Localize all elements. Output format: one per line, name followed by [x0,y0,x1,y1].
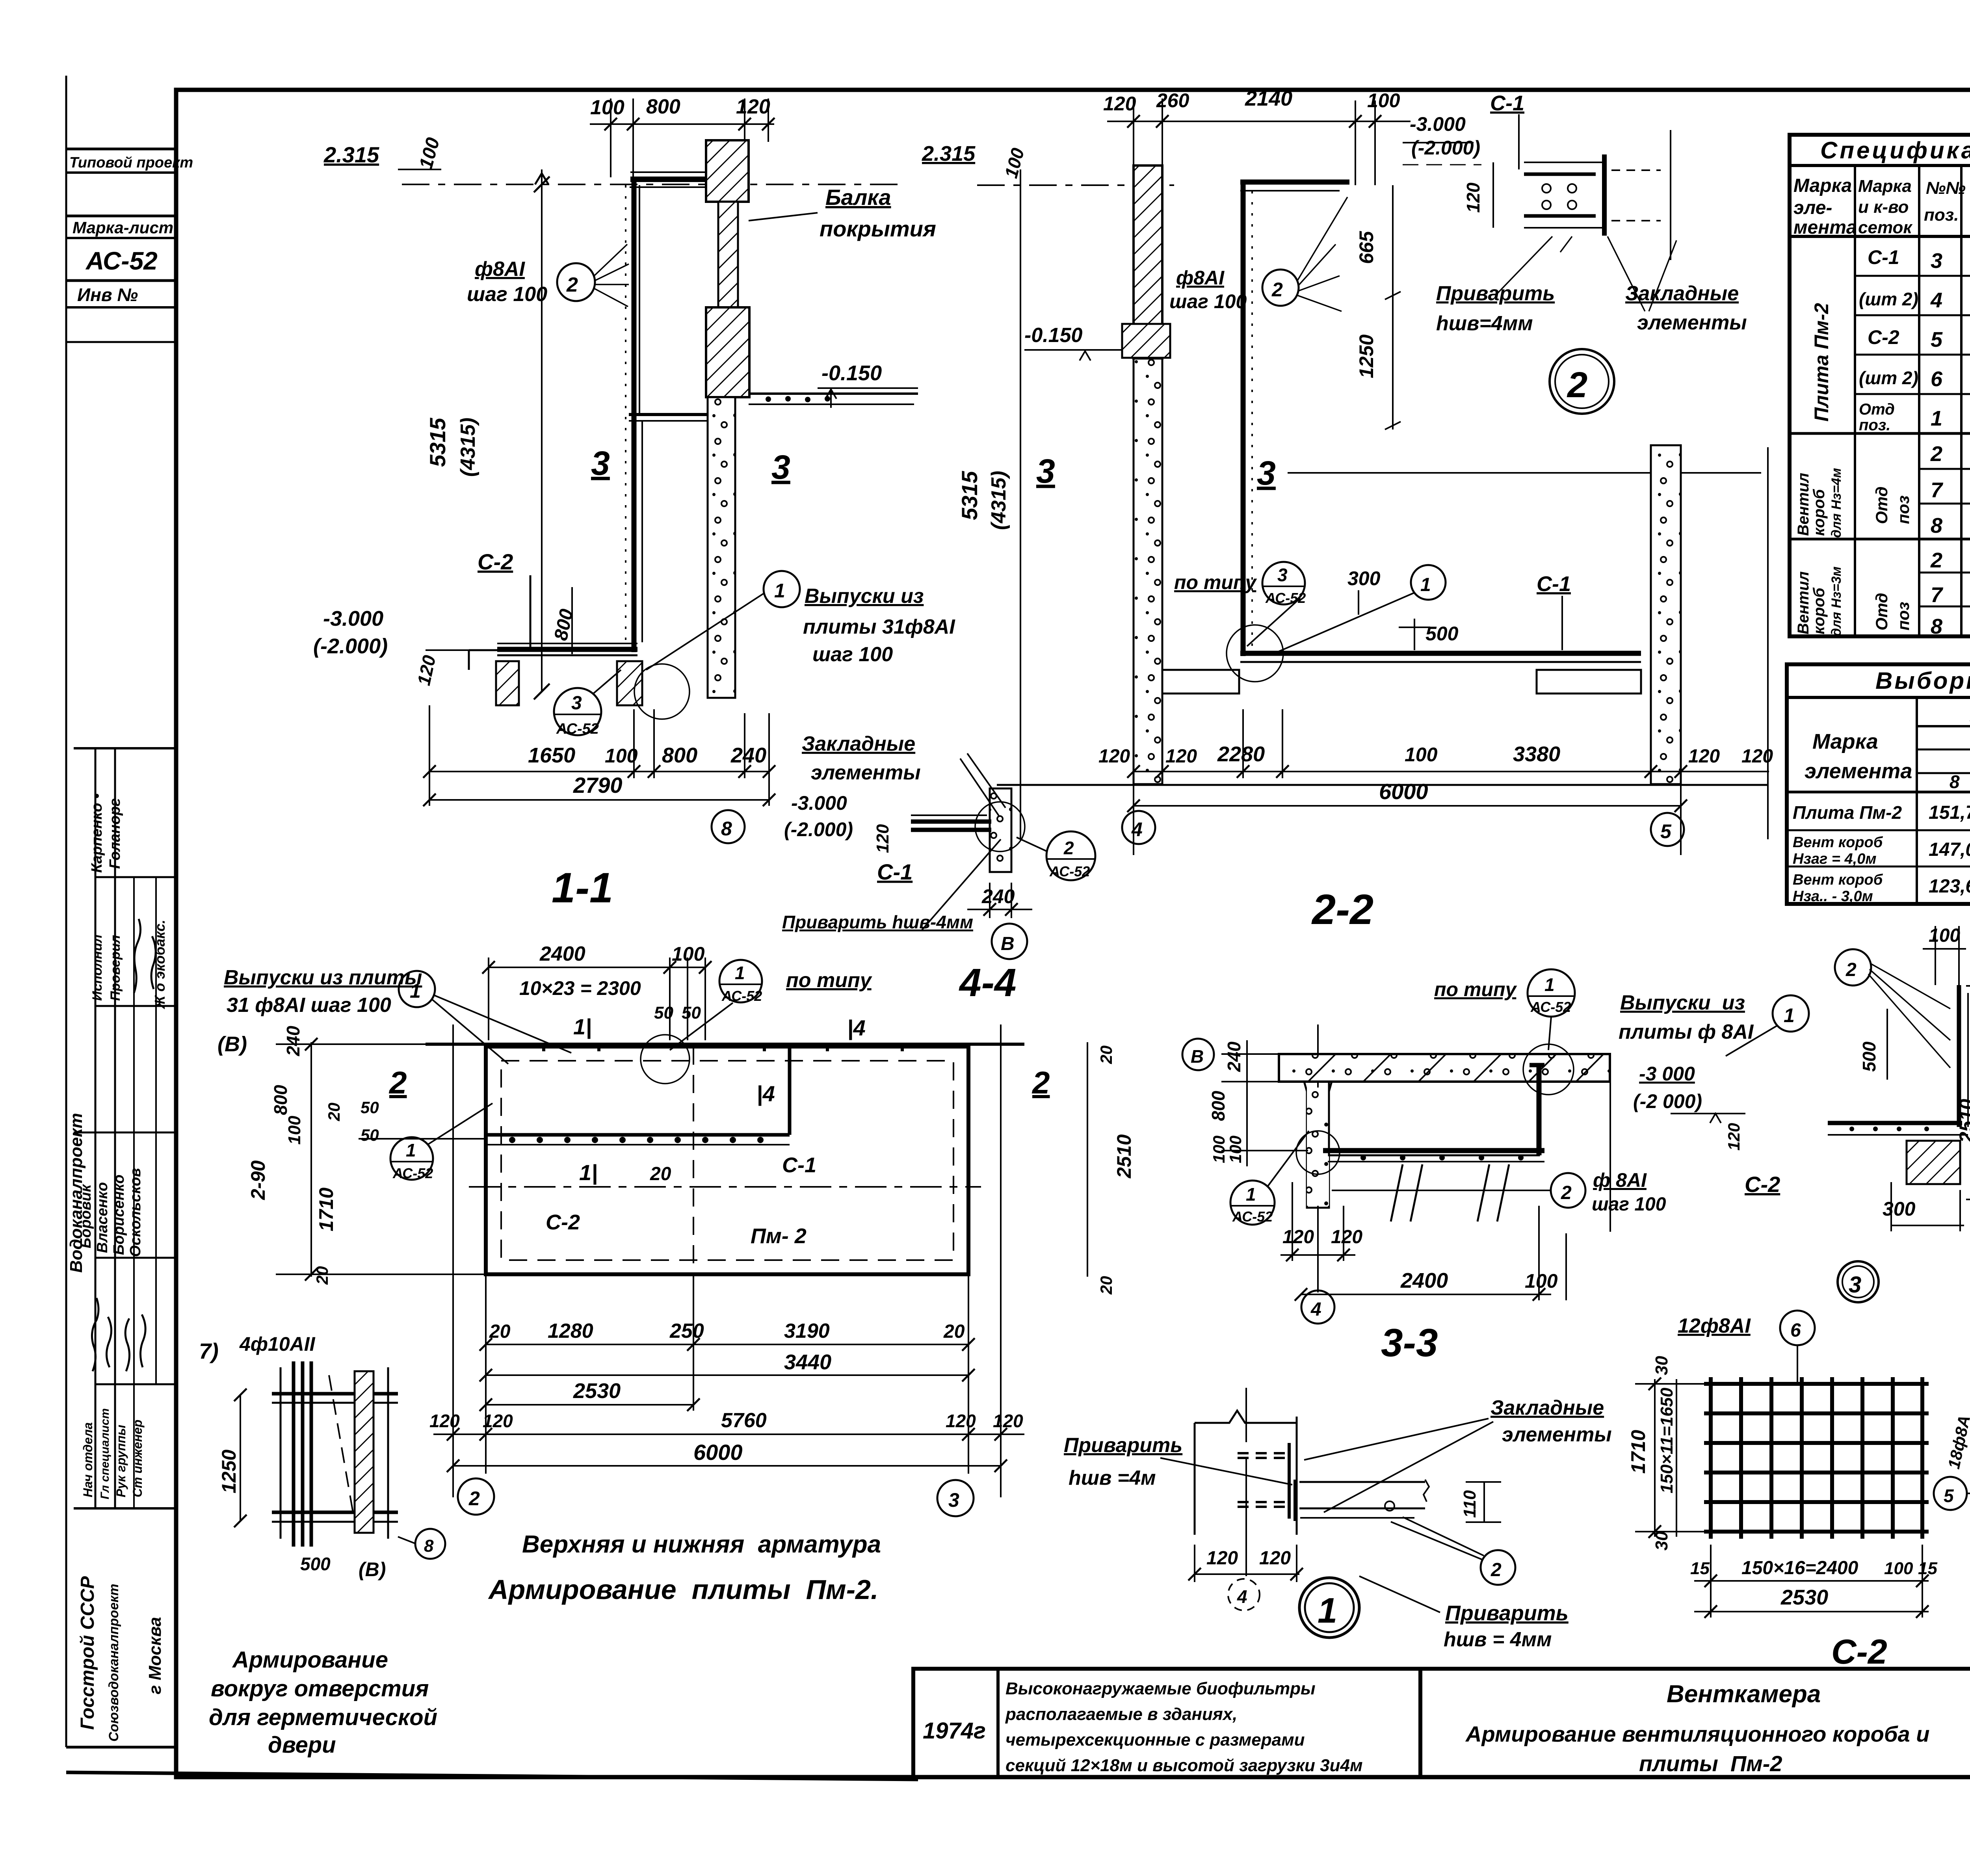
svg-text:3: 3 [948,1489,959,1511]
svg-text:Марка-лист: Марка-лист [72,218,173,237]
svg-text:8: 8 [1931,615,1942,638]
svg-text:Приварить: Приварить [1436,282,1555,305]
svg-text:2: 2 [1271,279,1283,301]
svg-text:ф8АІ: ф8АІ [475,258,525,281]
svg-text:100: 100 [605,745,638,767]
svg-text:(-2 000): (-2 000) [1633,1090,1702,1112]
svg-text:мента: мента [1793,217,1857,238]
ledge with bars at -0.150 [749,392,918,395]
svg-text:120: 120 [993,1411,1023,1431]
svg-text:АС-52: АС-52 [1232,1209,1273,1225]
svg-text:120: 120 [1165,746,1197,767]
svg-text:2: 2 [1930,442,1942,466]
svg-text:покрытия: покрытия [820,216,936,241]
svg-text:2: 2 [1567,365,1587,405]
hatched footing blocks [496,661,519,705]
circle B + left dims [1182,1039,1214,1070]
hatch strokes below [1391,1164,1509,1222]
svg-text:Закладные: Закладные [1625,282,1739,305]
svg-text:-3.000: -3.000 [791,792,847,814]
right dimension chain [1087,1042,1088,1277]
svg-text:1974г: 1974г [923,1718,986,1744]
svg-text:6000: 6000 [693,1440,743,1465]
svg-text:2: 2 [1491,1560,1502,1580]
svg-text:3380: 3380 [1513,742,1560,766]
dots row along top edge of lower band [509,1137,764,1143]
svg-text:вокруг отверстия: вокруг отверстия [211,1676,429,1701]
svg-text:сеток: сеток [1858,218,1913,237]
svg-text:4: 4 [1930,288,1942,312]
svg-text:(4315): (4315) [457,418,479,477]
svg-text:100: 100 [1226,1136,1245,1163]
slab band speckled [1279,1054,1610,1082]
svg-text:Вент короб: Вент короб [1793,834,1883,851]
svg-text:2400: 2400 [1400,1269,1448,1292]
svg-text:Венткамера: Венткамера [1667,1681,1821,1708]
svg-text:поз: поз [1894,602,1912,630]
svg-text:Плита Пм-2: Плита Пм-2 [1810,303,1832,422]
svg-text:Выпуски из: Выпуски из [1620,991,1745,1014]
svg-text:Отд: Отд [1859,401,1895,418]
svg-text:120: 120 [483,1411,513,1431]
svg-text:240: 240 [283,1026,303,1056]
svg-text:1|: 1| [573,1014,592,1039]
svg-text:четырехсекционные с размерами: четырехсекционные с размерами [1005,1730,1305,1750]
svg-text:Приварить: Приварить [1064,1434,1182,1457]
svg-text:120: 120 [1688,746,1720,767]
svg-text:120: 120 [1331,1227,1362,1248]
svg-text:Марка: Марка [1812,730,1878,753]
circle 1/AC-52 left [1230,1181,1275,1225]
svg-text:АС-52: АС-52 [1530,999,1571,1015]
svg-text:110: 110 [1460,1490,1479,1518]
svg-text:260: 260 [1156,89,1189,112]
svg-text:1|: 1| [579,1160,598,1185]
svg-text:100: 100 [1884,1559,1913,1578]
svg-text:800: 800 [646,95,680,118]
C-2 mesh grid [1711,1377,1922,1539]
circle 2 [1481,1550,1515,1585]
svg-text:7: 7 [1931,583,1944,607]
svg-text:12ф8АІ: 12ф8АІ [1678,1315,1751,1337]
svg-text:(-2.000): (-2.000) [784,818,853,840]
svg-text:Водоканалпроект: Водоканалпроект [67,1113,86,1273]
svg-text:Армирование вентиляционного ко: Армирование вентиляционного короба и [1465,1722,1929,1746]
svg-text:1280: 1280 [548,1320,593,1342]
svg-text:1: 1 [735,963,745,983]
MESHC2 [1627,1311,1970,1671]
T rib speckled [1279,1082,1332,1208]
svg-text:4: 4 [1131,818,1143,840]
svg-text:5: 5 [1944,1486,1954,1506]
SPECTABLE [1790,135,1970,636]
svg-text:Отд: Отд [1872,487,1891,524]
svg-text:Нач отдела: Нач отдела [81,1422,95,1497]
svg-text:располагаемые в зданиях,: располагаемые в зданиях, [1005,1705,1237,1724]
svg-text:по типу: по типу [786,969,873,992]
svg-text:2530: 2530 [1780,1586,1828,1609]
svg-text:100: 100 [1929,925,1960,946]
svg-text:2530: 2530 [573,1379,621,1403]
svg-text:31 ф8АІ шаг 100: 31 ф8АІ шаг 100 [227,994,391,1017]
svg-text:120: 120 [429,1411,460,1431]
svg-text:шаг 100: шаг 100 [812,643,893,666]
svg-text:элемента: элемента [1805,759,1912,783]
svg-text:2790: 2790 [573,773,623,798]
svg-text:ф 8АІ: ф 8АІ [1593,1169,1647,1191]
svg-text:поз.: поз. [1924,205,1959,225]
svg-text:С-1: С-1 [877,859,913,884]
channel reinforcement thick [1323,1148,1544,1153]
svg-text:-0.150: -0.150 [1024,324,1083,347]
svg-text:150×16=2400: 150×16=2400 [1741,1558,1858,1579]
svg-text:Ж о экобакс.: Ж о экобакс. [152,920,168,1010]
beam (балка покрытия) hatched [706,140,749,202]
svg-text:Власенко: Власенко [94,1182,111,1253]
wall outline [1195,1388,1297,1576]
svg-text:500: 500 [1425,623,1459,645]
svg-text:Спецификация стали на один: Спецификация стали на один элемент [1820,137,1970,164]
wall [1134,165,1162,359]
svg-text:Балка: Балка [825,185,891,210]
axis line [1317,1024,1319,1292]
svg-text:-3 000: -3 000 [1639,1063,1695,1085]
svg-text:100: 100 [1405,744,1438,766]
svg-text:50: 50 [361,1126,379,1144]
svg-text:поз: поз [1894,495,1912,524]
svg-text:100: 100 [1210,1136,1228,1163]
svg-text:120: 120 [1725,1123,1743,1151]
circle 1/AC-52 mid-left [390,1137,433,1180]
svg-text:С-1: С-1 [1537,572,1571,596]
svg-text:20: 20 [650,1164,671,1184]
svg-text:Вент короб: Вент короб [1793,872,1883,888]
svg-text:8: 8 [1931,514,1942,537]
svg-text:Выпуски из: Выпуски из [805,585,924,608]
svg-text:по типу: по типу [1174,571,1257,593]
SECTION11 [313,95,1095,959]
svg-text:100: 100 [590,96,624,119]
svg-text:120: 120 [1103,93,1136,115]
svg-text:С-2: С-2 [546,1210,580,1234]
svg-text:6: 6 [1790,1320,1801,1341]
reinforcement L element [1241,182,1246,656]
svg-text:3440: 3440 [784,1350,831,1374]
TITLEBLOCK [913,1669,1970,1777]
svg-text:3: 3 [571,693,582,714]
svg-text:3190: 3190 [784,1320,830,1342]
svg-text:3: 3 [1257,454,1276,492]
svg-text:(шт 2): (шт 2) [1859,289,1918,309]
svg-text:элементы: элементы [1637,311,1747,334]
svg-text:5: 5 [1931,328,1943,351]
svg-text:2.315: 2.315 [922,142,976,165]
svg-text:151,7: 151,7 [1929,802,1970,823]
svg-text:3: 3 [1036,452,1055,490]
svg-text:2-90: 2-90 [247,1160,269,1200]
svg-text:шаг 100: шаг 100 [467,283,547,306]
svg-text:120: 120 [1098,746,1130,767]
svg-text:500: 500 [300,1554,331,1574]
svg-text:300: 300 [1883,1198,1916,1220]
svg-text:2: 2 [566,273,578,296]
svg-text:Рук группы: Рук группы [114,1425,128,1497]
svg-text:1: 1 [1420,575,1431,595]
circle 2 + f8AI label [1551,1173,1585,1208]
svg-text:800: 800 [1208,1091,1228,1121]
svg-text:100: 100 [1367,89,1400,112]
svg-text:1710: 1710 [315,1188,337,1231]
svg-text:|4: |4 [756,1081,775,1106]
svg-text:hшв =4м: hшв =4м [1069,1467,1156,1489]
svg-text:Высоконагружаемые биофильтры: Высоконагружаемые биофильтры [1005,1679,1316,1698]
anchor dashed bars [1238,1453,1288,1507]
svg-text:1: 1 [1931,407,1942,430]
vypuski labels [764,571,800,607]
svg-text:hшв=4мм: hшв=4мм [1436,312,1533,335]
svg-text:120: 120 [1259,1548,1291,1569]
svg-text:шаг 100: шаг 100 [1169,290,1247,312]
svg-text:Госстрой СССР: Госстрой СССР [77,1576,98,1730]
svg-text:2: 2 [1845,959,1857,980]
svg-text:-0.150: -0.150 [821,361,882,385]
svg-text:Нза.. - 3,0м: Нза.. - 3,0м [1793,888,1873,905]
svg-text:7): 7) [199,1339,219,1363]
detail 7: opening reinforcement [199,1333,445,1758]
svg-text:по типу: по типу [1434,978,1517,1000]
svg-text:1650: 1650 [528,744,575,767]
svg-text:плиты ф 8АІ: плиты ф 8АІ [1619,1021,1754,1043]
svg-text:120: 120 [1282,1227,1314,1248]
svg-text:50: 50 [361,1098,379,1117]
PLANPM2 [217,943,1182,1605]
bottom sheet line under frame [66,1772,918,1779]
svg-text:1: 1 [410,980,421,1002]
svg-text:6000: 6000 [1379,779,1428,804]
svg-text:240: 240 [1224,1041,1244,1072]
right edge line [1609,1054,1611,1232]
svg-text:500: 500 [1859,1041,1879,1072]
Privarit left label [1160,1458,1292,1485]
SIDEBAR [66,149,176,1508]
svg-text:1: 1 [1246,1184,1256,1205]
svg-text:1250: 1250 [1355,335,1377,378]
svg-text:1: 1 [1784,1004,1795,1026]
svg-text:для Нз=4м: для Нз=4м [1829,468,1844,538]
svg-text:4: 4 [1237,1586,1247,1607]
svg-text:-3.000: -3.000 [1410,113,1466,135]
bottom dims [1134,709,1769,855]
SECTION22 [922,87,1773,933]
svg-text:2140: 2140 [1245,87,1292,110]
svg-text:С-2: С-2 [1745,1172,1780,1197]
top dims [489,958,705,1040]
svg-text:№№: №№ [1926,178,1966,198]
right wall [1651,445,1681,784]
svg-text:120: 120 [873,824,892,853]
svg-text:8: 8 [1950,772,1960,792]
big vertical dim 5315 [541,184,543,692]
svg-text:5760: 5760 [721,1409,767,1432]
svg-text:короб: короб [1810,489,1828,536]
svg-text:150×11=1650: 150×11=1650 [1657,1387,1676,1493]
plate and duct wall [1288,1443,1291,1519]
svg-text:Армирование: Армирование [232,1647,388,1673]
svg-text:(4315): (4315) [987,471,1010,530]
SECTION33 [1182,969,1809,1365]
svg-text:1: 1 [1544,974,1555,995]
svg-text:Союзводоканалпроект: Союзводоканалпроект [106,1584,121,1742]
svg-text:120: 120 [736,95,770,118]
bottom dims [1694,1545,1929,1618]
svg-text:1: 1 [1318,1591,1337,1631]
svg-text:Борисенко: Борисенко [111,1175,127,1255]
svg-text:665: 665 [1355,231,1377,264]
svg-text:3: 3 [771,448,790,486]
svg-text:20: 20 [325,1103,343,1121]
data row lines [1855,275,1970,277]
svg-text:(В): (В) [217,1032,247,1056]
svg-text:Выпуски из плиты: Выпуски из плиты [224,966,422,989]
svg-text:элементы: элементы [811,761,921,784]
svg-text:(-2.000): (-2.000) [1411,137,1480,159]
svg-text:С-1: С-1 [782,1153,816,1177]
svg-text:секций 12×18м и высотой загруз: секций 12×18м и высотой загрузки 3и4м [1005,1756,1363,1775]
svg-text:2510: 2510 [1113,1134,1135,1179]
svg-text:120: 120 [1741,746,1773,767]
svg-text:Закладные: Закладные [1491,1396,1604,1419]
svg-text:Инв №: Инв № [77,284,138,305]
svg-text:100: 100 [285,1116,304,1145]
svg-text:30: 30 [1652,1356,1671,1375]
svg-text:Отд: Отд [1872,593,1891,630]
svg-text:2: 2 [1930,548,1942,572]
svg-text:50: 50 [682,1003,701,1023]
svg-text:Верхняя и нижняя арматура: Верхняя и нижняя арматура [522,1531,881,1558]
svg-text:2510: 2510 [1955,1099,1970,1143]
signature table [74,747,176,749]
highlight circles [1296,1131,1340,1174]
svg-text:3: 3 [1277,565,1288,585]
bottom dims [429,705,769,806]
svg-text:3: 3 [591,444,610,482]
MESHC1 [1828,914,1970,1329]
svg-text:240: 240 [981,885,1015,907]
svg-text:В: В [1001,933,1015,954]
svg-text:120: 120 [1463,182,1483,213]
svg-text:2: 2 [468,1487,480,1510]
svg-text:Армирование плиты Пм-2.: Армирование плиты Пм-2. [488,1574,878,1605]
svg-text:|4: |4 [847,1015,866,1040]
hash ticks on top edge [544,1044,902,1051]
svg-text:Вентил: Вентил [1795,473,1812,536]
svg-text:ф8АІ: ф8АІ [1176,267,1225,289]
svg-text:50: 50 [654,1003,673,1023]
left thin outer line [65,76,67,1747]
svg-text:плиты Пм-2: плиты Пм-2 [1639,1751,1782,1776]
svg-text:10×23 = 2300: 10×23 = 2300 [519,977,641,999]
circle 3 / AC-52 [554,688,601,735]
svg-text:Ст инженер: Ст инженер [130,1420,145,1497]
svg-text:Пм- 2: Пм- 2 [751,1224,807,1248]
big circled 2 [1550,349,1614,414]
svg-text:элементы: элементы [1502,1423,1612,1446]
665 / 1250 dims [1385,185,1401,429]
svg-text:С-2: С-2 [1831,1632,1887,1671]
svg-text:2-2: 2-2 [1311,885,1373,933]
svg-text:Выборка арматуры на один э: Выборка арматуры на один элемент [1875,667,1970,694]
horizontal top bar of duct [629,413,708,416]
svg-text:4ф10АІІ: 4ф10АІІ [239,1333,316,1355]
slab top lines [497,643,637,644]
svg-text:300: 300 [1347,567,1381,589]
svg-text:Вентил: Вентил [1795,571,1812,634]
svg-text:В: В [1191,1046,1204,1067]
svg-text:двери: двери [268,1732,336,1758]
svg-text:120: 120 [1206,1548,1238,1569]
svg-text:1250: 1250 [218,1450,240,1493]
svg-text:для Нз=3м: для Нз=3м [1829,567,1844,636]
svg-text:5: 5 [1660,820,1672,842]
svg-text:800: 800 [662,744,697,767]
svg-text:2280: 2280 [1217,742,1265,766]
svg-text:шаг 100: шаг 100 [1592,1194,1666,1215]
dimension rows below plan [433,1024,1024,1497]
svg-text:Голанорг: Голанорг [107,798,123,869]
svg-text:Приварить: Приварить [1445,1601,1569,1625]
svg-text:Карпенко •: Карпенко • [89,794,105,873]
svg-text:1-1: 1-1 [552,864,613,911]
bottom leg of reinforcement [497,647,637,652]
long vertical dim 5315 [1020,169,1021,839]
svg-text:Марка: Марка [1858,177,1912,196]
svg-text:2400: 2400 [539,943,585,965]
svg-text:плиты 31ф8АІ: плиты 31ф8АІ [803,615,955,638]
svg-text:Нзаг = 4,0м: Нзаг = 4,0м [1793,851,1877,867]
svg-text:123,6: 123,6 [1929,876,1970,897]
svg-text:120: 120 [946,1411,976,1431]
svg-text:1: 1 [406,1140,416,1160]
wall reinforcement element 2: vertical with top hook [632,177,637,652]
ground line [997,784,1768,786]
left dimension chain [276,1042,489,1277]
svg-text:3: 3 [1931,249,1942,273]
svg-text:100: 100 [1525,1270,1558,1292]
svg-text:3: 3 [1849,1272,1861,1298]
svg-text:8: 8 [424,1536,434,1556]
svg-text:5315: 5315 [957,471,982,520]
svg-text:4: 4 [1310,1299,1321,1320]
svg-text:АС-52: АС-52 [85,247,158,275]
svg-text:С-1: С-1 [1868,246,1899,268]
svg-text:и к-во: и к-во [1858,197,1909,217]
bottom steps [1162,670,1641,694]
svg-text:7: 7 [1931,478,1944,502]
svg-text:С-2: С-2 [478,549,513,574]
svg-text:20: 20 [1097,1045,1115,1064]
svg-text:Плита Пм-2: Плита Пм-2 [1793,802,1902,823]
svg-text:г Москва: г Москва [145,1617,165,1694]
top dimension 100 800 120 [590,99,774,177]
svg-text:эле-: эле- [1793,197,1832,218]
svg-text:(В): (В) [359,1558,386,1580]
svg-text:800: 800 [270,1085,291,1115]
svg-text:АС-52: АС-52 [721,988,762,1004]
svg-text:1: 1 [774,580,785,602]
plan outer rect [426,1043,1024,1046]
svg-text:-3.000: -3.000 [323,607,383,630]
axis bubble 8 [712,810,745,843]
